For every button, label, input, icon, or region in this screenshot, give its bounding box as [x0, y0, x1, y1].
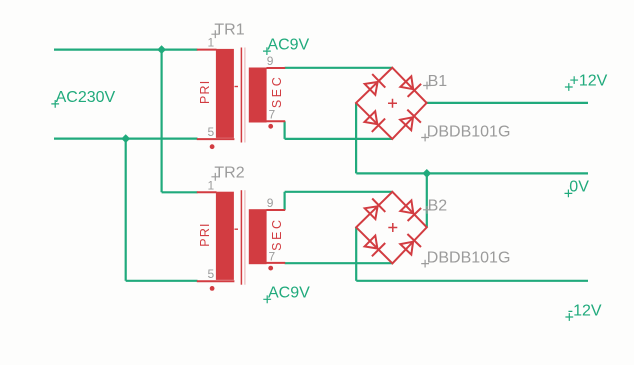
bridge rectifier B1	[356, 68, 427, 139]
wire AC230V bottom: input 2 horizontal	[54, 138, 198, 140]
svg-text:5: 5	[208, 125, 215, 139]
wire B1 minus (left vertex) drop to 0V row	[355, 103, 357, 173]
TR1 secondary winding block	[249, 68, 267, 123]
wire B2 minus (left vertex) drop to -12V row	[355, 227, 357, 280]
B2 diode left-top bar	[372, 199, 385, 212]
wire J3 drop to B2 plus (right vertex)	[426, 173, 428, 227]
bridge rectifier B2	[356, 192, 427, 264]
wire +12V rail	[427, 102, 588, 104]
wire TR2 pin9 riser	[284, 192, 286, 210]
B2 diode bottom-right bar	[407, 234, 421, 247]
AC230V origin cross	[51, 100, 59, 108]
junction J3 on 0V rail	[422, 169, 431, 178]
TR1 core line 1	[240, 48, 242, 143]
wire AC230V top: input 1 horizontal	[54, 48, 198, 50]
svg-text:B1: B1	[428, 73, 448, 90]
AC9V bottom origin cross	[263, 295, 271, 303]
TR2 pin 5 stub	[197, 280, 235, 282]
wire 0V rail	[356, 172, 588, 174]
TR2 pin 9 stub	[267, 209, 286, 211]
B2 plus mark	[388, 223, 397, 232]
B1 diode left-bottom triangle	[365, 111, 378, 124]
B2 diode left-bottom triangle	[365, 236, 378, 249]
TR1 pin 1 stub	[197, 49, 217, 51]
wire TR1 pin9 to B1 AC1 (top vertex)	[285, 67, 393, 69]
svg-text:DBDB101G: DBDB101G	[427, 249, 511, 266]
B1 diamond outline	[356, 68, 427, 139]
wire TR1 pin7 drop	[284, 121, 286, 139]
B2 diamond outline	[356, 192, 427, 264]
AC9V top origin cross	[263, 47, 271, 55]
svg-text:B2: B2	[428, 197, 448, 214]
B2 diode left-top triangle	[365, 206, 378, 219]
TR1 primary polarity dot	[210, 144, 215, 149]
TR1 pin 9 stub	[267, 67, 286, 69]
wire vertical from junction J2 down to TR2 pin5 row	[125, 139, 127, 281]
TR1 pin 7 stub	[267, 120, 286, 122]
B2 value origin cross	[421, 260, 429, 268]
wire vertical from junction J1 down to TR2 pin1 row	[161, 50, 163, 193]
TR2 primary polarity dot	[210, 286, 215, 291]
svg-text:7: 7	[269, 108, 276, 122]
wire TR2 pin5 horizontal from riser	[126, 280, 198, 282]
svg-text:SEC: SEC	[270, 75, 284, 109]
TR2 secondary winding block	[249, 209, 267, 264]
B1 diode top-right triangle	[400, 76, 413, 89]
svg-text:PRI: PRI	[198, 80, 212, 104]
junction J2	[121, 134, 130, 143]
wire TR2 pin7 run to B2 AC2 (bottom vertex)	[285, 262, 393, 264]
TR2 primary center tick	[235, 228, 239, 230]
B1 diode top-right bar	[408, 84, 422, 97]
svg-text:AC230V: AC230V	[56, 89, 116, 106]
B2 diode top-right bar	[408, 208, 422, 221]
wire TR1 pin7 run to B1 AC2 (bottom vertex)	[285, 138, 393, 140]
svg-text:7: 7	[269, 249, 276, 263]
transformer TR2	[197, 164, 285, 290]
svg-text:TR1: TR1	[214, 22, 244, 39]
svg-text:9: 9	[267, 196, 274, 210]
TR2 secondary polarity dot	[268, 266, 273, 271]
TR2 pin 1 stub	[197, 191, 217, 193]
B1 plus mark	[388, 99, 397, 108]
B2 diode left-bottom bar	[372, 243, 385, 256]
wire TR2 pin1 horizontal from riser	[162, 191, 198, 193]
TR2 pin 7 stub	[267, 262, 286, 264]
B1 diode bottom-right triangle	[400, 117, 413, 130]
TR1 core line 2	[244, 48, 246, 143]
TR1 label origin cross	[211, 30, 219, 38]
+12V origin cross	[565, 83, 573, 91]
TR2 core line 1	[240, 190, 242, 285]
TR1 primary center tick	[235, 86, 239, 88]
svg-text:5: 5	[208, 267, 215, 281]
junction J1	[157, 45, 166, 54]
TR2 primary winding block	[216, 192, 234, 280]
svg-text:PRI: PRI	[198, 222, 212, 246]
TR1 primary winding block	[216, 49, 234, 138]
svg-text:+12V: +12V	[570, 73, 608, 90]
B1 diode bottom-right bar	[407, 110, 421, 123]
-12V origin cross	[565, 313, 573, 321]
svg-text:DBDB101G: DBDB101G	[427, 123, 511, 140]
0V origin cross	[565, 190, 573, 198]
B1 diode left-bottom bar	[372, 119, 385, 132]
svg-text:SEC: SEC	[270, 217, 284, 251]
TR2 core line 2	[244, 190, 246, 285]
B1 value origin cross	[421, 134, 429, 142]
svg-text:9: 9	[267, 54, 274, 68]
TR1 pin 5 stub	[197, 138, 235, 140]
B1 diode left-top bar	[372, 74, 385, 88]
B2 label origin cross	[423, 206, 431, 214]
transformer TR1	[197, 22, 285, 149]
TR1 secondary polarity dot	[268, 124, 273, 129]
wire TR2 pin9 run to B2 AC1 (top vertex)	[285, 191, 393, 193]
svg-text:AC9V: AC9V	[268, 285, 310, 302]
svg-text:TR2: TR2	[214, 164, 244, 181]
B1 diode left-top triangle	[365, 82, 378, 95]
wire -12V rail	[356, 280, 588, 282]
B1 label origin cross	[423, 82, 431, 90]
TR2 label origin cross	[211, 173, 219, 181]
svg-text:AC9V: AC9V	[267, 37, 309, 54]
B2 diode top-right triangle	[400, 200, 413, 213]
B2 diode bottom-right triangle	[400, 242, 413, 255]
